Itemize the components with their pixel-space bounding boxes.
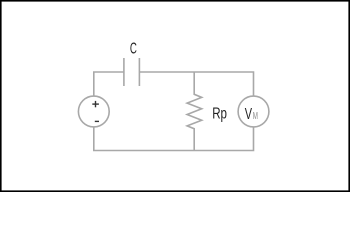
svg-text:V: V: [245, 106, 253, 123]
svg-text:Rp: Rp: [212, 105, 227, 122]
svg-text:M: M: [253, 111, 258, 122]
svg-text:C: C: [130, 41, 137, 58]
